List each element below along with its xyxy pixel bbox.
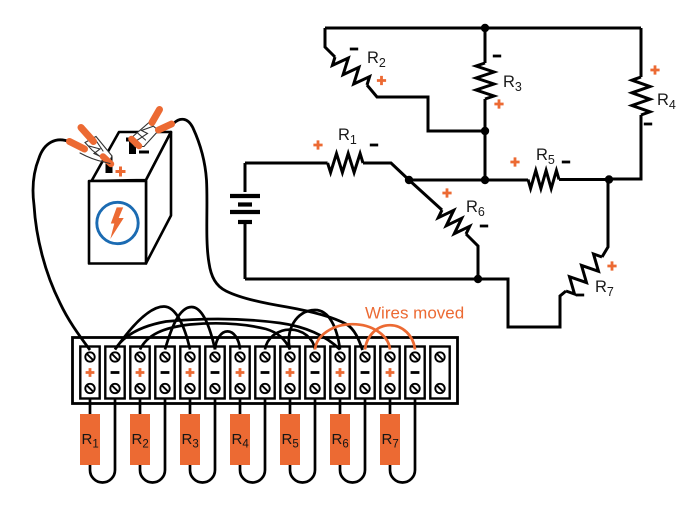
svg-text:Wires moved: Wires moved (365, 304, 464, 323)
